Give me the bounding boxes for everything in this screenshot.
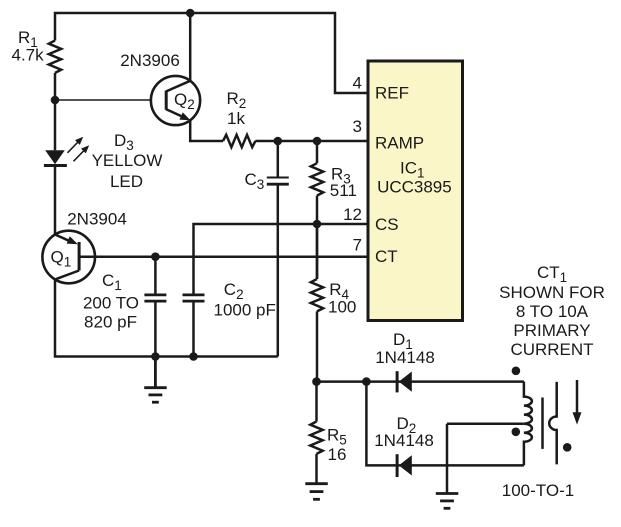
wire R4 top lead (from CS junction, crossing CT) — [316, 224, 319, 279]
transformer CT1 primary conductor — [549, 382, 557, 465]
wire Q1 emitter down and ground rail to C3 riser — [55, 279, 278, 356]
svg-text:CS: CS — [375, 215, 399, 234]
wire C1 bottom lead — [154, 303, 157, 357]
wire C1 top lead — [154, 257, 157, 294]
svg-text:200 TO: 200 TO — [83, 293, 139, 312]
wire CS pin 12 line — [194, 224, 369, 294]
wire C3 bottom lead down to ground rail — [277, 185, 280, 356]
svg-text:2N3906: 2N3906 — [120, 51, 180, 70]
wire transformer center tap — [447, 422, 524, 425]
transformer CT1 secondary winding — [524, 382, 532, 466]
transistor Q1 2N3904 — [42, 231, 95, 284]
polarity dot secondary top — [512, 367, 521, 376]
capacitor C2 — [183, 295, 205, 301]
resistor R1 — [49, 41, 61, 73]
svg-text:1k: 1k — [227, 109, 245, 128]
svg-text:2N3904: 2N3904 — [67, 210, 127, 229]
node RAMP / C3 junction — [274, 137, 283, 146]
resistor R4 — [311, 279, 323, 311]
node RAMP / R3 junction — [313, 137, 322, 146]
svg-text:1N4148: 1N4148 — [374, 431, 434, 450]
wire C3 top lead — [277, 141, 280, 177]
resistor R2 — [223, 135, 255, 147]
wire D2 branch (down from D1 node and across) — [366, 382, 524, 466]
resistor R5 — [310, 422, 322, 454]
node R4 / R5 / D1 junction — [312, 377, 321, 386]
node CS / R3 / R4 junction — [313, 220, 322, 229]
node CT / C1 junction — [151, 252, 160, 261]
wire Q2 base (thin) — [55, 99, 151, 101]
svg-text:8 TO 10A: 8 TO 10A — [516, 302, 589, 321]
primary current arrow — [573, 380, 582, 425]
node top rail junction — [186, 9, 195, 18]
svg-text:LED: LED — [110, 172, 143, 191]
svg-text:1N4148: 1N4148 — [375, 348, 435, 367]
svg-text:RAMP: RAMP — [375, 134, 424, 153]
wire Q2 emitter to top rail — [189, 13, 192, 81]
svg-text:SHOWN FOR: SHOWN FOR — [499, 283, 605, 302]
transistor Q2 2N3906 — [151, 76, 200, 125]
svg-text:3: 3 — [353, 117, 362, 136]
svg-text:511: 511 — [330, 181, 357, 200]
svg-text:100: 100 — [328, 298, 356, 317]
wire R5 bottom lead — [315, 454, 318, 484]
ground under C1 rail — [144, 357, 167, 403]
wire center tap ground drop — [446, 424, 449, 494]
capacitor C3 — [267, 178, 289, 185]
svg-text:4.7k: 4.7k — [12, 46, 45, 65]
wire R5 top lead — [315, 382, 318, 422]
transformer CT1 core — [541, 398, 544, 449]
wire CT pin 7 line (Q1 base to CT) — [81, 255, 369, 258]
svg-text:CT: CT — [375, 247, 398, 266]
node D1 / D2 junction — [362, 377, 371, 386]
capacitor C1 — [144, 295, 166, 301]
wire Q2 collector to R2 — [190, 121, 223, 141]
wire C2 bottom lead — [192, 303, 195, 357]
wire top rail and REF feed — [55, 13, 368, 93]
wire R3 bottom to CS line and on to R4 — [316, 196, 319, 279]
diode D2 1N4148 — [397, 454, 412, 477]
LED D3 — [44, 137, 89, 166]
resistor R3 — [311, 163, 323, 195]
wire LED to Q1 — [54, 167, 57, 235]
ground under center tap — [436, 494, 459, 509]
node ground rail / C2 junction — [189, 352, 198, 361]
polarity dot primary — [563, 443, 572, 452]
wire RAMP to R3 — [316, 141, 319, 163]
diode D1 1N4148 — [397, 371, 412, 392]
svg-text:100-TO-1: 100-TO-1 — [502, 481, 574, 500]
svg-text:16: 16 — [328, 445, 347, 464]
node ground rail / C1 junction — [151, 352, 160, 361]
svg-text:7: 7 — [353, 236, 362, 255]
polarity dot secondary lower half — [512, 428, 521, 437]
wire R2 to RAMP pin 3 — [255, 140, 368, 143]
node A (R1 / LED / Q2 base junction) — [51, 96, 60, 105]
svg-text:12: 12 — [343, 205, 362, 224]
IC U1 UCC3895 body — [368, 61, 463, 321]
svg-text:PRIMARY: PRIMARY — [513, 321, 590, 340]
wire R1 bottom to LED — [54, 73, 57, 150]
wire D1 line to transformer — [317, 380, 524, 383]
svg-text:CURRENT: CURRENT — [510, 340, 593, 359]
svg-text:REF: REF — [375, 84, 409, 103]
svg-text:YELLOW: YELLOW — [92, 151, 163, 170]
svg-text:820 pF: 820 pF — [84, 313, 137, 332]
ground under R5 — [305, 484, 328, 500]
svg-text:4: 4 — [353, 74, 362, 93]
wire R4 bottom lead — [316, 311, 319, 381]
svg-text:1000 pF: 1000 pF — [214, 301, 276, 320]
svg-text:UCC3895: UCC3895 — [377, 178, 452, 197]
